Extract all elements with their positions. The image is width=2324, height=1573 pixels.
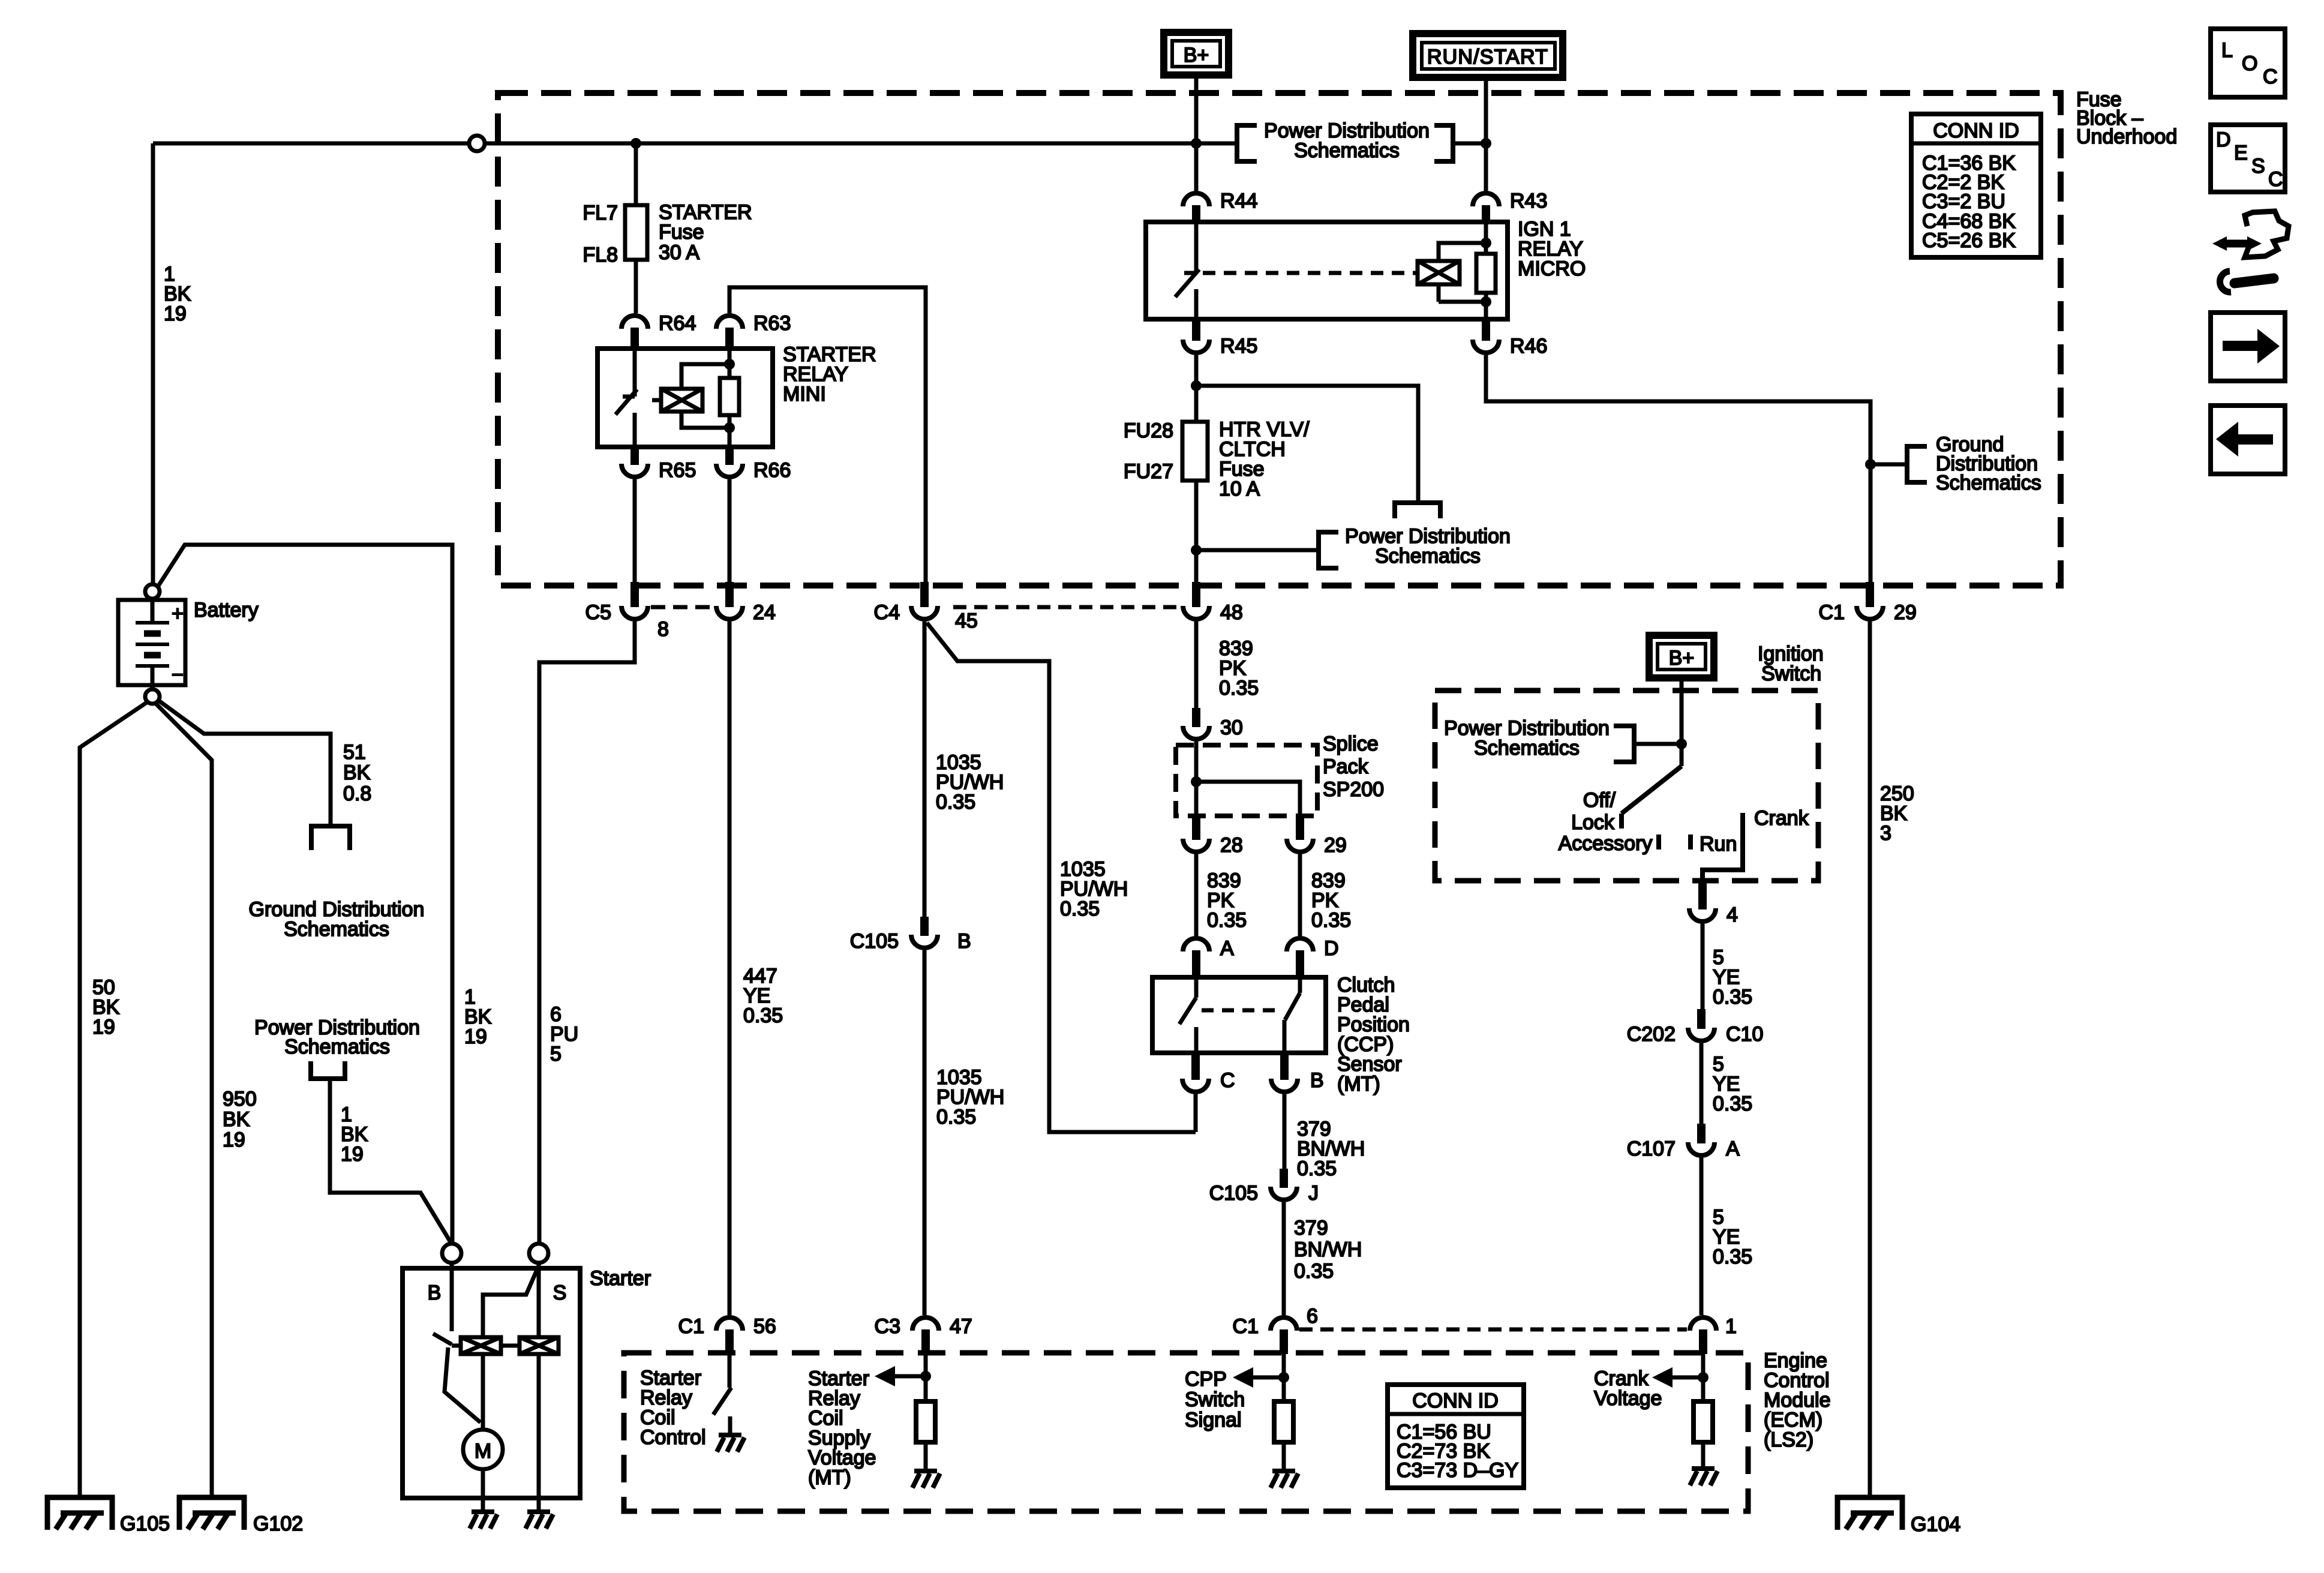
chassis ground ECM pin 1 — [1690, 1469, 1718, 1485]
svg-text:Schematics: Schematics — [284, 1035, 390, 1058]
battery — [118, 584, 185, 704]
svg-text:0.35: 0.35 — [1060, 897, 1100, 920]
svg-text:C1: C1 — [1819, 601, 1845, 624]
label 250 BK 3 — [1880, 782, 1914, 845]
svg-text:B+: B+ — [1669, 647, 1695, 670]
svg-text:C1: C1 — [678, 1315, 704, 1338]
connector R44 — [1183, 190, 1257, 222]
connector R65 — [621, 447, 696, 482]
bracket [ ground distribution — [1907, 446, 1927, 482]
svg-text:8: 8 — [657, 618, 669, 641]
connector row dashed line C5 to 24 — [651, 605, 715, 610]
label 1035 PU/WH 0.35 (first) — [936, 751, 1004, 813]
label Off/ Lock Accessory — [1559, 789, 1653, 855]
svg-text:SP200: SP200 — [1323, 778, 1384, 801]
svg-text:950: 950 — [223, 1088, 257, 1110]
nav icon arrow right — [2211, 313, 2285, 381]
label IGN 1 RELAY MICRO — [1518, 218, 1586, 280]
svg-text:0.35: 0.35 — [743, 1004, 783, 1027]
wire: starter grounds stubs — [537, 1498, 541, 1511]
svg-text:30 A: 30 A — [659, 241, 699, 264]
junction dots ECM — [920, 1371, 931, 1382]
svg-text:C105: C105 — [850, 930, 899, 953]
label 6 PU 5 — [550, 1003, 578, 1065]
wire: 48 to 30 (839 PK) — [1194, 622, 1199, 708]
ECM 1 resistor — [1694, 1401, 1713, 1442]
svg-text:24: 24 — [753, 601, 776, 624]
connector ignition pin 4 — [1689, 883, 1738, 926]
wire: C4 45 branch to CCP C (1035 PU/WH) — [927, 623, 1196, 1132]
wire: 28 to A (839 PK) — [1194, 854, 1199, 936]
connector circle at fuse block boundary — [469, 136, 485, 151]
label 1 BK 19 (battery feed) — [164, 263, 191, 325]
ground G102 — [179, 1497, 303, 1535]
svg-text:Underhood: Underhood — [2076, 125, 2177, 148]
svg-text:G105: G105 — [120, 1512, 170, 1535]
svg-text:M: M — [475, 1440, 491, 1463]
label Starter Relay Coil Supply Voltage MT — [808, 1367, 876, 1489]
wire: 1 BK 19 from power distribution ref to starter B — [330, 1079, 451, 1243]
svg-text:0.35: 0.35 — [1713, 1092, 1752, 1115]
ignition accessory contact — [1656, 834, 1661, 849]
svg-text:Schematics: Schematics — [1294, 139, 1400, 162]
connector ECM C1 pin 6 — [1233, 1305, 1318, 1354]
nav icon LOC — [2211, 29, 2285, 97]
svg-text:BK: BK — [223, 1108, 250, 1131]
svg-text:47: 47 — [950, 1315, 972, 1338]
svg-text:CPP: CPP — [1185, 1368, 1227, 1391]
svg-text:−: − — [172, 664, 184, 686]
wire: starter fuse drop from bus — [634, 143, 638, 313]
fuse FU28/FU27 HTR VLV/CLTCH 10A — [1182, 422, 1208, 481]
svg-text:51: 51 — [343, 741, 366, 764]
wire: C107 to ECM 1 (5 YE) — [1700, 1158, 1704, 1315]
label 1035 PU/WH 0.35 (branch) — [1060, 858, 1128, 920]
svg-text:Starter: Starter — [590, 1267, 651, 1290]
svg-text:L: L — [2221, 39, 2233, 62]
starter relay coil winding symbol — [661, 389, 702, 412]
svg-text:C3: C3 — [875, 1315, 900, 1338]
label 379 BN/WH 0.35 (first) — [1297, 1118, 1365, 1180]
label Ground Distribution Schematics (right) — [1936, 433, 2041, 494]
ECM C1 6 resistor — [1274, 1401, 1293, 1442]
svg-text:R63: R63 — [753, 312, 791, 335]
connector C105 pin J — [1209, 1169, 1319, 1205]
B+ terminal box (fuse block) — [1164, 32, 1229, 75]
svg-text:(MT): (MT) — [808, 1466, 851, 1489]
wire: 4 to C202 (5 YE) — [1701, 924, 1705, 1009]
connector R43 — [1473, 190, 1547, 222]
wire: bracket to RUN/START drop — [1453, 142, 1486, 146]
label 5 YE 0.35 (third) — [1713, 1206, 1752, 1268]
wire: C202 to C107 (5 YE) — [1700, 1043, 1704, 1124]
svg-text:B: B — [957, 930, 971, 953]
svg-text:C105: C105 — [1209, 1182, 1258, 1205]
svg-text:Pack: Pack — [1323, 755, 1369, 778]
svg-text:1: 1 — [1725, 1315, 1737, 1338]
svg-text:FU27: FU27 — [1124, 460, 1173, 483]
wire: battery positive vertical — [151, 143, 155, 584]
label Ignition Switch — [1758, 643, 1824, 685]
CCP linkage dashed — [1202, 1008, 1280, 1013]
label Power Distribution Schematics (FU28) — [1345, 525, 1511, 568]
bracket [ power distribution (FU28 area) — [1319, 532, 1338, 568]
fuse FL7/FL8 STARTER 30A — [625, 205, 647, 260]
svg-text:S: S — [2251, 155, 2265, 178]
arrow starter relay coil supply voltage — [875, 1366, 895, 1386]
chassis ground under starter solenoid — [526, 1512, 553, 1529]
RUN/START terminal box — [1413, 34, 1563, 77]
svg-text:E: E — [2234, 142, 2248, 164]
starter relay mini box — [597, 349, 773, 447]
label Clutch Pedal Position CCP Sensor MT — [1337, 974, 1410, 1095]
clutch pedal position sensor box — [1152, 977, 1326, 1053]
label 1 BK 19 (starter B wire) — [464, 986, 492, 1048]
svg-text:B+: B+ — [1184, 44, 1209, 67]
svg-text:B: B — [428, 1281, 442, 1304]
svg-text:0.35: 0.35 — [1294, 1260, 1334, 1283]
wire: RUN/START drop — [1484, 79, 1488, 191]
label Power Distribution Schematics (starter area) — [254, 1016, 420, 1058]
svg-text:Signal: Signal — [1185, 1409, 1242, 1431]
starter S internal wire — [537, 1263, 541, 1498]
svg-text:Off/: Off/ — [1583, 789, 1616, 812]
bracket [ power distribution top — [1237, 125, 1257, 161]
svg-text:R45: R45 — [1220, 335, 1257, 358]
fuse block underhood dashed box — [498, 93, 2061, 586]
starter solenoid jog S to pull-in winding — [483, 1266, 539, 1337]
wire: CCP B to C105 J (379 BN/WH) — [1283, 1094, 1287, 1169]
svg-text:30: 30 — [1220, 716, 1243, 739]
wire: branch to power distribution ref (upper) — [1196, 386, 1418, 503]
off-page bracket 51 BK ground distribution — [311, 826, 350, 850]
svg-text:19: 19 — [464, 1025, 487, 1048]
connector pin 24 — [716, 582, 776, 624]
svg-text:D: D — [2216, 128, 2231, 151]
connector ECM pin 1 — [1690, 1315, 1737, 1354]
svg-text:19: 19 — [341, 1143, 364, 1166]
label Crank Voltage — [1594, 1367, 1662, 1410]
wire: bracket to ignition B+ — [1634, 742, 1682, 746]
connector C105 pin B — [850, 917, 971, 953]
ECM dashed box — [624, 1353, 1748, 1511]
svg-text:MINI: MINI — [783, 383, 826, 406]
svg-text:Lock: Lock — [1571, 811, 1615, 834]
nav icon arrow left — [2211, 406, 2285, 474]
label Engine Control Module ECM LS2 — [1764, 1349, 1831, 1451]
label 50 BK 19 — [92, 976, 120, 1038]
label 1035 PU/WH 0.35 (second) — [936, 1066, 1004, 1128]
label Fuse Block Underhood — [2076, 88, 2177, 148]
svg-text:0.35: 0.35 — [936, 1106, 976, 1128]
svg-text:4: 4 — [1727, 903, 1738, 926]
starter linkage dashes — [452, 1344, 520, 1348]
svg-text:Switch: Switch — [1185, 1388, 1245, 1411]
svg-text:45: 45 — [955, 610, 978, 632]
starter pull-in winding symbol — [461, 1337, 501, 1354]
IGN 1 relay micro box — [1146, 222, 1508, 319]
svg-text:G104: G104 — [1911, 1513, 1960, 1536]
wire: B+ drop — [1194, 77, 1199, 191]
svg-text:0.35: 0.35 — [1713, 1245, 1752, 1268]
ECM C3 47 resistor — [916, 1401, 935, 1442]
wire: C5 8 to starter S (6 PU 5) — [539, 622, 635, 1244]
svg-text:BN/WH: BN/WH — [1294, 1238, 1362, 1261]
svg-text:Battery: Battery — [194, 599, 259, 622]
svg-text:Schematics: Schematics — [1474, 737, 1580, 760]
svg-text:RUN/START: RUN/START — [1427, 46, 1548, 68]
ground G105 — [47, 1497, 170, 1535]
wire: battery to starter B (1 BK 19) — [158, 545, 452, 1244]
junction dot ignition — [1676, 739, 1687, 749]
svg-text:Crank: Crank — [1754, 807, 1809, 830]
svg-text:R64: R64 — [659, 312, 696, 335]
wire: motor to ground — [481, 1469, 485, 1511]
connector C5 pin 8 — [585, 582, 669, 641]
connector ECM C3 pin 47 — [875, 1315, 972, 1354]
svg-text:A: A — [1220, 937, 1234, 960]
wire: branch to power distribution ref (lower) — [1196, 548, 1319, 553]
IGN relay resistor — [1476, 222, 1496, 319]
label 5 YE 0.35 (first) — [1713, 946, 1752, 1008]
connector row dashed line C4 to 48 — [953, 605, 1181, 610]
svg-text:C202: C202 — [1627, 1023, 1676, 1046]
label Splice Pack SP200 — [1323, 733, 1384, 801]
svg-text:19: 19 — [223, 1128, 245, 1151]
wire: battery negative to G105 — [80, 702, 148, 1497]
label STARTER Fuse 30 A — [659, 201, 752, 264]
svg-text:C: C — [1220, 1069, 1235, 1092]
CONN ID table ECM — [1388, 1385, 1524, 1488]
svg-text:Splice: Splice — [1323, 733, 1379, 755]
junction dot splice pack — [1191, 776, 1202, 787]
svg-text:FU28: FU28 — [1124, 419, 1173, 442]
wire: branch to ground distribution ref — [1870, 463, 1907, 467]
svg-text:10 A: 10 A — [1219, 478, 1260, 500]
IGN relay coil branch — [1439, 243, 1486, 302]
svg-text:56: 56 — [753, 1315, 776, 1338]
wire: battery negative to G102 — [155, 703, 212, 1497]
nav icon wrench hood — [2212, 211, 2289, 292]
label 839 PK 0.35 (29 wire) — [1311, 869, 1351, 932]
svg-text:0.35: 0.35 — [1713, 986, 1752, 1008]
connector R64 — [621, 312, 696, 349]
starter pull-in winding wire to motor — [481, 1354, 485, 1430]
svg-text:BK: BK — [343, 761, 371, 784]
label 839 PK 0.35 (28 wire) — [1207, 869, 1247, 932]
svg-text:0.8: 0.8 — [343, 782, 371, 805]
svg-text:FL8: FL8 — [582, 244, 618, 266]
svg-text:C10: C10 — [1726, 1023, 1763, 1046]
svg-text:379: 379 — [1294, 1217, 1328, 1239]
connector R45 — [1183, 319, 1257, 358]
starter relay switch — [615, 349, 637, 447]
wire: R63 to C4 45 feed — [729, 287, 926, 582]
ground G104 — [1837, 1497, 1960, 1536]
svg-text:R65: R65 — [659, 459, 696, 482]
connector pin 30 — [1183, 708, 1243, 739]
starter S terminal circle — [529, 1244, 548, 1263]
IGN relay linkage dashed — [1203, 271, 1416, 275]
svg-text:(MT): (MT) — [1337, 1073, 1380, 1095]
bracket ] power distribution top — [1434, 125, 1453, 161]
off-page bracket power distribution (FU28 area upper) — [1395, 503, 1440, 518]
connector R46 — [1473, 319, 1547, 358]
svg-text:29: 29 — [1894, 601, 1917, 624]
connector CCP pin C — [1182, 1054, 1235, 1092]
wire: R45 to 48 with branches — [1194, 355, 1199, 582]
chassis ground under starter motor — [470, 1512, 497, 1529]
connector R66 — [716, 447, 791, 482]
svg-text:0.35: 0.35 — [1297, 1157, 1337, 1180]
starter box — [403, 1268, 580, 1498]
svg-text:Schematics: Schematics — [1375, 545, 1481, 568]
ignition crank contact — [1703, 813, 1743, 883]
label Ground Distribution Schematics (battery) — [249, 898, 425, 941]
CCP right switch — [1284, 977, 1300, 1053]
junction dots starter relay — [724, 359, 735, 370]
connector ECM C1 pin 56 — [678, 1315, 776, 1354]
connector CCP pin D — [1287, 937, 1339, 977]
svg-text:R43: R43 — [1510, 190, 1547, 212]
svg-text:FL7: FL7 — [582, 202, 618, 224]
wire: C1 29 to G104 (250 BK) — [1868, 622, 1872, 1497]
arrow CPP switch signal — [1233, 1367, 1253, 1388]
svg-text:5: 5 — [550, 1043, 562, 1065]
starter B internal wire and switch — [433, 1263, 481, 1422]
svg-text:19: 19 — [92, 1016, 115, 1038]
junction dots IGN relay — [1481, 238, 1491, 248]
label CPP Switch Signal — [1185, 1368, 1245, 1431]
wire: 29 to D (839 PK) — [1298, 854, 1302, 936]
svg-text:S: S — [553, 1281, 567, 1304]
connector CCP pin A — [1183, 937, 1234, 977]
connector row dashed line C1-6 to 1 (ECM) — [1299, 1328, 1687, 1332]
svg-text:0.35: 0.35 — [1219, 677, 1259, 700]
ECM C1 6 wire arrow and resistor — [1252, 1347, 1284, 1471]
wire: C105 J to C1 6 (379 BN/WH) — [1282, 1202, 1286, 1315]
label 379 BN/WH 0.35 (second) — [1294, 1217, 1362, 1283]
svg-text:6: 6 — [1307, 1305, 1318, 1328]
connector C4 pin 45 — [874, 582, 978, 632]
label Power Distribution Schematics (top) — [1264, 119, 1430, 162]
splice pack SP200 dashed box — [1176, 745, 1317, 816]
starter relay coil branch — [681, 364, 729, 428]
label 839 PK 0.35 (48 wire) — [1219, 637, 1259, 700]
wire: R65 to C5 — [633, 479, 637, 582]
ignition run contact — [1688, 834, 1693, 849]
label 950 BK 19 — [223, 1088, 257, 1151]
chassis ground ECM C3 47 — [912, 1471, 940, 1488]
label Starter Relay Coil Control — [640, 1367, 706, 1449]
svg-text:C5=26 BK: C5=26 BK — [1922, 229, 2016, 252]
ignition switch blade to Off/Lock — [1622, 766, 1682, 828]
connector C107 pin A — [1627, 1124, 1740, 1160]
wire: bus to bracket — [1196, 142, 1237, 146]
bracket ] power distribution (ignition) — [1614, 726, 1634, 762]
connector R63 — [716, 312, 791, 349]
svg-text:CONN ID: CONN ID — [1933, 119, 2019, 142]
svg-text:Control: Control — [640, 1426, 706, 1449]
svg-text:R66: R66 — [753, 459, 791, 482]
svg-text:J: J — [1308, 1182, 1319, 1205]
wire: R46 to C1 29 — [1486, 355, 1870, 582]
wire: main battery bus — [153, 142, 1196, 146]
svg-text:C4: C4 — [874, 601, 900, 624]
svg-text:(LS2): (LS2) — [1764, 1428, 1813, 1451]
wire: battery negative 51 BK 0.8 to ground ref — [157, 700, 331, 826]
connector pin 48 — [1183, 582, 1243, 624]
svg-text:Schematics: Schematics — [1936, 472, 2041, 494]
wire: 24 to C1 56 (447 YE) — [728, 622, 732, 1315]
label STARTER RELAY MINI — [783, 343, 876, 406]
wire: 30 into splice pack — [1194, 742, 1199, 816]
B+ terminal box (ignition switch) — [1649, 635, 1714, 678]
IGN relay coil winding symbol — [1418, 261, 1460, 284]
svg-text:CONN ID: CONN ID — [1412, 1389, 1499, 1412]
ECM C3 47 wire arrow and resistor — [894, 1347, 926, 1471]
wire: splice pack branch to 29 — [1196, 782, 1300, 816]
svg-text:A: A — [1726, 1137, 1740, 1160]
label 447 YE 0.35 — [743, 965, 783, 1027]
wire: C4 45 to C105 B to C3 47 (1035 PU/WH) — [923, 622, 927, 1315]
svg-text:+: + — [172, 602, 184, 625]
CCP left switch — [1179, 977, 1196, 1053]
chassis ground ECM C1 56 — [717, 1435, 744, 1452]
label HTR VLV/ CLTCH Fuse 10 A — [1219, 418, 1310, 500]
svg-text:28: 28 — [1220, 834, 1243, 857]
svg-text:Schematics: Schematics — [284, 918, 389, 941]
svg-text:Accessory: Accessory — [1559, 832, 1653, 855]
svg-text:C107: C107 — [1627, 1137, 1676, 1160]
starter B terminal circle — [442, 1244, 461, 1263]
wire: R66 to 24 — [728, 479, 732, 582]
connector C1 pin 29 — [1819, 582, 1917, 624]
svg-text:0.35: 0.35 — [1207, 909, 1247, 932]
svg-text:48: 48 — [1220, 601, 1243, 624]
svg-text:0.35: 0.35 — [936, 791, 975, 813]
starter hold-in winding symbol — [520, 1337, 559, 1354]
svg-text:Switch: Switch — [1761, 662, 1821, 685]
ECM 1 wire arrow and resistor — [1671, 1347, 1703, 1469]
svg-text:D: D — [1324, 937, 1339, 960]
svg-text:C1: C1 — [1233, 1315, 1259, 1338]
starter motor M — [463, 1430, 503, 1469]
svg-text:29: 29 — [1324, 834, 1347, 857]
starter relay resistor — [720, 349, 739, 447]
svg-text:O: O — [2242, 52, 2257, 75]
label Power Distribution Schematics (ignition) — [1444, 717, 1610, 760]
CONN ID table fuse block — [1911, 114, 2041, 257]
svg-text:Voltage: Voltage — [1594, 1387, 1662, 1410]
junction dots fuse block — [630, 138, 641, 149]
svg-text:C5: C5 — [585, 601, 611, 624]
svg-text:0.35: 0.35 — [1311, 909, 1351, 932]
svg-text:Fuse: Fuse — [659, 221, 704, 244]
svg-text:3: 3 — [1880, 822, 1891, 845]
svg-text:R44: R44 — [1220, 190, 1257, 212]
off-page bracket power distribution (starter area) — [311, 1061, 345, 1079]
svg-text:MICRO: MICRO — [1518, 257, 1586, 280]
arrow crank voltage — [1652, 1367, 1673, 1388]
wire: CCP C down to branch — [1194, 1094, 1198, 1132]
svg-text:C: C — [2268, 168, 2283, 191]
connector pin 28 — [1183, 816, 1243, 857]
connector pin 29 splice — [1287, 816, 1347, 857]
nav icon DESC — [2211, 125, 2285, 192]
connector CCP pin B — [1271, 1054, 1324, 1092]
label 1 BK 19 (power dist wire) — [341, 1103, 368, 1166]
